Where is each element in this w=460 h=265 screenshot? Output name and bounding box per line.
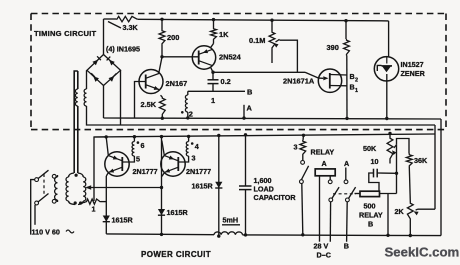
pulse winding 1-2 (185, 95, 187, 112)
diode 1615R (third, on cap rail) (217, 134, 220, 137)
svg-text:1: 1 (355, 88, 358, 94)
relay B right lead (379, 193, 397, 195)
svg-text:1615R: 1615R (192, 182, 214, 191)
mains switch pole 2 (35, 201, 39, 205)
transformer T1 primary winding (55, 177, 58, 200)
wire node1 horizontal to B terminal (188, 90, 245, 92)
label 6 with polarity dot (137, 141, 140, 144)
resistor 3.3K (in series in top bus) (116, 16, 138, 21)
svg-text:RELAY: RELAY (359, 211, 383, 220)
wire bridge bottom vertex to lower bus (103, 86, 105, 119)
transformer T1 core return wire (74, 71, 78, 173)
potentiometer 2K (407, 202, 413, 220)
svg-text:4: 4 (195, 142, 199, 151)
diode 1615R (middle rail) (158, 209, 165, 215)
svg-text:A: A (247, 104, 253, 113)
bridge diode upper-left (92, 60, 98, 66)
unijunction transistor 2N1671A (318, 69, 341, 92)
svg-text:B: B (350, 83, 355, 92)
node Q4 rail / center-tap wire (160, 186, 163, 189)
power top bus left jog down to transformer (94, 137, 106, 201)
bridge diode lower-right (109, 76, 115, 82)
wire 2N167 base left and down to bus (135, 82, 146, 119)
svg-text:1615R: 1615R (167, 208, 189, 217)
transistor Q3 2N1777 (left) (105, 152, 129, 176)
svg-text:2N1777: 2N1777 (133, 167, 158, 176)
feedback winding 6-5 (133, 135, 136, 138)
svg-text:IN1527: IN1527 (401, 60, 424, 69)
primary terminal circles (52, 174, 56, 178)
svg-text:2: 2 (189, 110, 193, 119)
svg-text:3.3K: 3.3K (123, 23, 139, 32)
relay contact blades (329, 198, 333, 202)
svg-text:SeekIC.com: SeekIC.com (385, 245, 460, 260)
svg-text:110 V 60: 110 V 60 (32, 228, 60, 237)
resistor 2.5K (161, 95, 163, 97)
transistor Q2 2N524 (192, 46, 215, 69)
svg-text:5mH: 5mH (223, 216, 239, 225)
svg-text:POWER CIRCUIT: POWER CIRCUIT (141, 250, 211, 259)
2K wiper arrow and wire to bus2 (416, 209, 418, 210)
wire timing second bus (121, 124, 436, 126)
wire zener bottom to bus (386, 81, 388, 119)
svg-text:6: 6 (141, 141, 145, 150)
wire winding B bottom to lower bus 2 (87, 106, 121, 125)
zener diode IN1527 in circle (388, 21, 390, 57)
mains feed wires 110V (31, 180, 35, 235)
power circuit bottom bus (106, 233, 214, 236)
resistor 1 (horizontal) (86, 199, 102, 204)
node capacitor 0.2 top (211, 71, 214, 74)
wire corner down to bridge top (103, 19, 105, 55)
svg-text:D–C: D–C (317, 251, 331, 260)
center-tap arrow wire to Q3/Q4 rail (87, 187, 162, 189)
switch mechanical link (dashed) (43, 174, 45, 196)
mains switch pole 1 (35, 178, 39, 182)
svg-text:1K: 1K (219, 30, 229, 39)
transformer T1 secondary winding A (timing) (77, 71, 79, 89)
wire Q4 collector rail (160, 135, 163, 138)
svg-text:3: 3 (192, 154, 196, 163)
resistor 390 (344, 19, 347, 22)
feedback winding 4-3 (187, 135, 190, 138)
svg-text:B: B (350, 72, 355, 81)
resistor 1K (212, 18, 215, 21)
wire top supply bus of timing circuit (104, 18, 117, 20)
terminal A stub (243, 105, 245, 118)
power circuit top bus (94, 134, 435, 137)
wire 390 bottom to B2/B1 and bus (346, 56, 348, 119)
svg-text:RELAY: RELAY (311, 148, 335, 157)
wire 2N524 collector down to 0.2 node (211, 68, 213, 73)
wire corner bus1 down right side (440, 119, 442, 236)
resistor 3 with switch (302, 134, 305, 137)
wire 1K bottom to 2N524 emitter (213, 41, 215, 44)
svg-text:390: 390 (327, 43, 339, 52)
contact mechanical dashed link (333, 193, 356, 195)
svg-text:10: 10 (371, 157, 379, 166)
svg-text:B: B (344, 242, 349, 251)
node collector/200/base junction (160, 55, 163, 58)
svg-text:5: 5 (136, 155, 140, 164)
svg-text:200: 200 (167, 33, 179, 42)
wire bridge right vertex down (120, 70, 122, 125)
capacitor 0.2 (212, 72, 214, 79)
svg-text:2N524: 2N524 (219, 53, 242, 62)
relay A coil box (315, 169, 335, 176)
bridge rectifier (4)IN1695 diamond (87, 55, 121, 86)
svg-text:1: 1 (92, 205, 96, 214)
svg-text:A: A (322, 159, 327, 168)
svg-text:50K: 50K (363, 144, 377, 153)
relay B left lead to contact (355, 193, 361, 195)
label 4 with polarity dot (191, 142, 194, 145)
load capacitor 1600 (244, 133, 247, 136)
wires contacts down to 28V / B terminals (329, 202, 331, 242)
svg-text:2N1777: 2N1777 (186, 167, 211, 176)
label winding terminal 2 with dot (181, 111, 184, 114)
UJT base-2 lead (330, 74, 347, 77)
svg-text:2N1671A: 2N1671A (283, 77, 315, 86)
svg-text:3: 3 (294, 143, 298, 152)
relay A coil leads down (319, 176, 321, 242)
wire wiper down to cap 10 node (396, 145, 398, 194)
svg-text:A: A (344, 159, 349, 168)
wire 2N167 collector to node (159, 57, 162, 73)
svg-text:2N167: 2N167 (166, 79, 188, 88)
svg-text:(4) IN1695: (4) IN1695 (106, 45, 140, 54)
svg-text:ZENER: ZENER (401, 69, 426, 78)
svg-text:0.1M: 0.1M (249, 36, 265, 45)
resistor 200 (160, 18, 163, 21)
0.1M wiper arrow and wire (276, 39, 280, 42)
svg-text:2.5K: 2.5K (141, 100, 157, 109)
resistor 36K (406, 154, 412, 168)
relay B coil box (360, 191, 380, 196)
wire Q3 lower lead down left rail (106, 173, 108, 176)
wire timing common bus (to A,B1,zener) (104, 118, 442, 119)
50K wiper arrow (394, 145, 397, 148)
svg-text:36K: 36K (414, 156, 428, 165)
switch blade under resistor 3 (302, 166, 309, 180)
potentiometer 0.1M (270, 19, 273, 22)
svg-text:B: B (368, 220, 373, 229)
bridge diode lower-left (93, 76, 99, 82)
wire corner bus2 down right side (434, 125, 436, 209)
svg-text:500: 500 (364, 202, 376, 211)
svg-text:CAPACITOR: CAPACITOR (254, 193, 297, 202)
wire switch to bottom bus (302, 184, 303, 235)
svg-text:0.2: 0.2 (221, 77, 231, 86)
svg-text:1615R: 1615R (112, 216, 134, 225)
transistor Q4 2N1777 (right) (161, 152, 185, 176)
inductor 5mH (in series in bottom bus) (214, 232, 243, 235)
svg-text:28 V: 28 V (314, 242, 329, 251)
bridge diode upper-right (109, 60, 115, 66)
wire timing node to UJT emitter (213, 71, 305, 73)
timing circuit dashed boundary box (31, 13, 446, 15)
wire Q3 upper lead to power bus (106, 137, 108, 155)
svg-text:2: 2 (355, 78, 358, 84)
svg-text:1: 1 (211, 96, 215, 105)
wire relay B to bottom bus (387, 194, 389, 236)
svg-text:B: B (247, 88, 252, 97)
svg-text:2K: 2K (395, 207, 405, 216)
wire winding bottom to resistor 1 (81, 201, 86, 204)
potentiometer 50K (388, 132, 391, 135)
wire node to 2N524 base (162, 56, 199, 58)
transistor Q1 2N167 (139, 70, 163, 94)
UJT base-1 lead (330, 85, 347, 87)
label pointer line for 3.3K (108, 22, 121, 29)
diode 1615R (left rail) (103, 216, 110, 222)
transformer T1 mains secondary (power winding) (69, 173, 74, 177)
svg-text:TIMING CIRCUIT: TIMING CIRCUIT (34, 29, 96, 38)
transformer T1 secondary winding B (timing) (86, 70, 88, 89)
